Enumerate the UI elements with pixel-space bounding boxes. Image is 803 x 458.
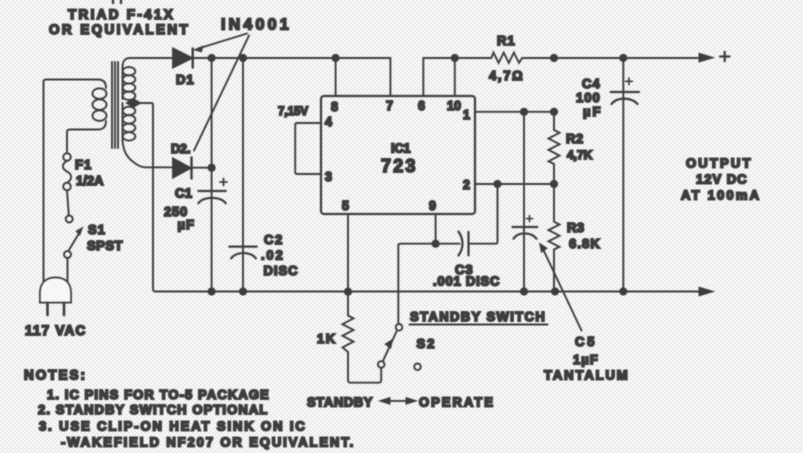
- svg-text:1/2A: 1/2A: [76, 173, 104, 188]
- node junction dot pin1/C5: [520, 108, 528, 116]
- svg-text:S1: S1: [88, 222, 106, 237]
- svg-text:4,7Ω: 4,7Ω: [489, 68, 524, 83]
- svg-text:TANTALUM: TANTALUM: [544, 368, 629, 383]
- diode D2: [150, 158, 212, 179]
- svg-text:1: 1: [463, 108, 470, 122]
- svg-text:1µF: 1µF: [573, 352, 599, 367]
- pin 6 + pin 10 wires: [423, 58, 455, 96]
- switch S2: [378, 324, 421, 370]
- svg-text:C4: C4: [582, 76, 601, 91]
- svg-text:STANDBY: STANDBY: [307, 395, 373, 410]
- svg-text:8: 8: [331, 100, 338, 114]
- transformer T1 primary winding: [44, 80, 107, 283]
- top edge scan remnant: [113, 0, 121, 3]
- svg-text:µF: µF: [178, 217, 195, 232]
- svg-text:OR EQUIVALENT: OR EQUIVALENT: [49, 22, 190, 37]
- wire C2 branch (x=243 vertical): [242, 58, 244, 292]
- svg-text:S2: S2: [417, 336, 437, 351]
- node junction dot R3 ground: [551, 287, 559, 295]
- diode D1: [173, 49, 193, 68]
- ground rail arrowhead: [699, 287, 714, 296]
- svg-text:2. STANDBY SWITCH OPTIONAL: 2. STANDBY SWITCH OPTIONAL: [38, 402, 268, 417]
- svg-text:3: 3: [325, 170, 332, 184]
- wire pin 1 line: [475, 111, 554, 113]
- svg-text:3. USE CLIP-ON HEAT SINK ON IC: 3. USE CLIP-ON HEAT SINK ON IC: [39, 419, 307, 434]
- svg-text:OPERATE: OPERATE: [419, 395, 495, 410]
- wire top rail left segment (D1 cathode bus to pin 7): [130, 58, 390, 96]
- wire rectifier output node (x=211.6 vertical): [211, 58, 213, 292]
- capacitor C5 branch wire: [523, 112, 525, 292]
- transformer T1 core: [112, 62, 118, 148]
- svg-text:F1: F1: [75, 157, 92, 172]
- svg-text:.02: .02: [261, 248, 284, 263]
- wire pin 2 line: [475, 183, 554, 185]
- svg-text:STANDBY SWITCH: STANDBY SWITCH: [410, 309, 546, 324]
- node junction dot pin8 rail: [332, 54, 340, 62]
- node junction dot C5 ground: [520, 287, 528, 295]
- pointer line C5: [540, 244, 582, 331]
- svg-text:AT 100mA: AT 100mA: [681, 188, 761, 203]
- node junction dot pin1/R2: [550, 108, 558, 116]
- svg-text:D1: D1: [176, 72, 195, 87]
- pointer line to D2: [194, 36, 249, 151]
- node junction dot pin2/C3: [493, 180, 501, 188]
- plug 117 VAC: [40, 278, 71, 316]
- svg-text:-WAKEFIELD NF207 OR EQUIVALENT: -WAKEFIELD NF207 OR EQUIVALENT.: [61, 435, 355, 450]
- resistor R1: [455, 53, 700, 63]
- svg-text:C2: C2: [264, 232, 284, 247]
- capacitor C4 branch wire: [622, 58, 624, 292]
- svg-text:100: 100: [576, 90, 601, 105]
- svg-text:C5: C5: [575, 334, 597, 349]
- svg-text:5: 5: [342, 199, 349, 213]
- svg-text:SPST: SPST: [87, 238, 123, 253]
- resistor R2: [549, 112, 560, 184]
- node junction dot C4 ground: [619, 287, 627, 295]
- svg-text:117 VAC: 117 VAC: [25, 323, 86, 338]
- svg-text:R3: R3: [567, 220, 585, 235]
- svg-text:.001 DISC: .001 DISC: [433, 274, 500, 289]
- svg-text:1. IC PINS FOR TO-5 PACKAGE: 1. IC PINS FOR TO-5 PACKAGE: [47, 387, 270, 402]
- svg-text:TRIAD F-41X: TRIAD F-41X: [68, 7, 175, 22]
- node junction dot top rail / D node: [208, 54, 216, 62]
- svg-text:OUTPUT: OUTPUT: [686, 156, 753, 171]
- svg-text:DISC: DISC: [264, 263, 299, 278]
- node junction dot R1/R2: [550, 54, 558, 62]
- svg-text:µF: µF: [583, 104, 602, 119]
- svg-text:D2.: D2.: [171, 142, 190, 156]
- svg-text:IC1: IC1: [391, 142, 411, 156]
- arrow standby-operate: [380, 398, 417, 405]
- wire pin9 node to standby switch: [398, 244, 435, 324]
- svg-text:9: 9: [429, 199, 436, 213]
- label + output: [720, 52, 730, 61]
- svg-text:723: 723: [381, 156, 418, 176]
- capacitor C4: [611, 78, 639, 104]
- capacitor C5: [513, 216, 538, 239]
- transformer T1 secondary winding: [123, 58, 151, 167]
- node junction dot C1 ground: [208, 287, 216, 295]
- svg-text:R1: R1: [497, 33, 516, 48]
- svg-text:12V DC: 12V DC: [696, 172, 748, 187]
- underline standby switch: [410, 324, 548, 326]
- node junction dot D2 output: [208, 164, 216, 172]
- svg-text:R2: R2: [566, 131, 584, 146]
- wire pin 9 stub: [435, 214, 437, 244]
- svg-text:IN4001: IN4001: [221, 17, 292, 34]
- capacitor C2: [229, 247, 256, 259]
- node junction dot C4 top: [619, 54, 627, 62]
- pointer line to D1: [194, 34, 247, 52]
- capacitor C1: [198, 179, 227, 204]
- wire pin 5 to ground rail: [347, 214, 349, 292]
- transformer T1 center tap: [127, 99, 156, 291]
- svg-text:6.8K: 6.8K: [569, 236, 601, 251]
- svg-text:10: 10: [447, 99, 461, 113]
- svg-text:C1: C1: [175, 186, 192, 201]
- node junction dot pin9/C3: [432, 240, 440, 248]
- fuse F1: [63, 153, 71, 215]
- node junction dot top rail C2: [239, 54, 247, 62]
- svg-text:1K: 1K: [317, 331, 337, 346]
- svg-text:4,7K: 4,7K: [567, 148, 593, 162]
- ground rail wire: [156, 291, 701, 293]
- wire 7.15V reference loop pin4-pin3: [295, 123, 321, 174]
- top rail output arrowhead: [699, 53, 714, 62]
- switch S1: [64, 216, 83, 283]
- svg-text:2: 2: [463, 178, 470, 192]
- svg-text:6: 6: [418, 99, 425, 113]
- svg-text:NOTES:: NOTES:: [24, 368, 87, 383]
- pin 8 wire: [335, 58, 337, 96]
- svg-text:4: 4: [325, 115, 332, 129]
- svg-text:7,15V: 7,15V: [278, 106, 308, 118]
- svg-text:7: 7: [386, 99, 393, 113]
- op-amp regulator IC1 723 box: [321, 96, 475, 214]
- resistor R3: [549, 184, 560, 292]
- node junction dot pin2/R2R3: [550, 180, 558, 188]
- node junction dot ground C2: [239, 287, 247, 295]
- node junction dot pin5 ground: [344, 288, 352, 296]
- resistor 1K: [343, 292, 382, 383]
- capacitor C3: [436, 184, 498, 256]
- node junction dot pin10 rail: [451, 54, 459, 62]
